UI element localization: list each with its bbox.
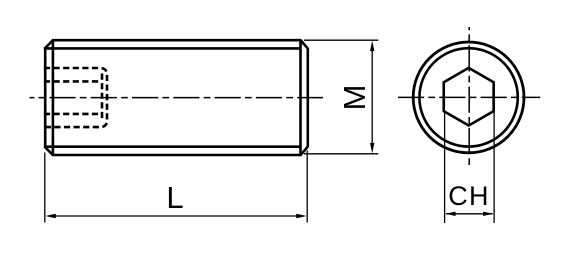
M dimension top extension line	[304, 39, 378, 41]
CH dimension left extension line	[444, 112, 446, 223]
svg-text:CH: CH	[448, 181, 489, 211]
hex socket hidden depth line (dashed vertical)	[101, 74, 104, 122]
L dimension right extension line	[306, 151, 308, 223]
L dimension line	[53, 215, 299, 217]
side view: body top outline	[52, 39, 301, 42]
end view: hex socket	[444, 68, 494, 126]
L dimension left extension line	[44, 153, 46, 223]
L dimension left arrowhead	[45, 214, 56, 218]
hex socket hidden lower flat line (dashed)	[44, 113, 101, 116]
side view: top-right chamfer diagonal	[301, 40, 308, 48]
side view: bottom-right chamfer diagonal	[301, 147, 308, 155]
end view horizontal centerline (dash-dot)	[398, 96, 540, 98]
side view: body bottom outline	[52, 154, 301, 157]
side view: bottom-left chamfer diagonal	[44, 146, 52, 154]
M dimension top arrowhead	[370, 41, 374, 52]
L dimension right arrowhead	[296, 214, 307, 218]
side view: left chamfer edge line	[52, 39, 55, 156]
svg-text:M: M	[337, 85, 372, 111]
side view: top-left chamfer diagonal	[44, 40, 52, 48]
M dimension bottom extension line	[304, 153, 378, 155]
side view: left end face outline	[44, 48, 47, 147]
side view: upper chamfer shoulder line	[44, 47, 301, 50]
hex socket hidden outline (dashed, across-corners profile with rounded end)	[44, 68, 107, 127]
CH dimension line	[446, 213, 493, 215]
M dimension bottom arrowhead	[370, 143, 374, 154]
hex socket hidden upper flat line (dashed)	[44, 80, 101, 83]
end view vertical centerline (dash-dot)	[468, 27, 470, 169]
CH dimension left arrowhead	[445, 212, 456, 216]
side view: right end face outline	[306, 48, 309, 147]
end view: outer thread circle	[413, 42, 524, 153]
CH dimension right extension line	[493, 112, 495, 223]
side view: right chamfer edge line	[299, 39, 302, 156]
svg-text:L: L	[166, 180, 183, 215]
side view: lower chamfer shoulder line	[44, 145, 301, 148]
end view: chamfer circle	[419, 48, 517, 146]
side view centerline (dash-dot)	[30, 97, 324, 99]
M dimension line	[371, 50, 373, 145]
CH dimension right arrowhead	[483, 212, 494, 216]
